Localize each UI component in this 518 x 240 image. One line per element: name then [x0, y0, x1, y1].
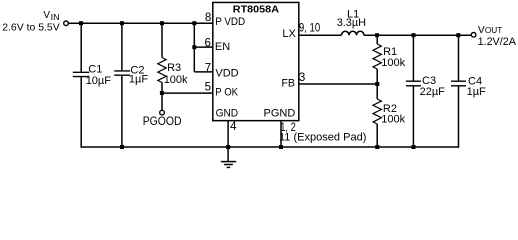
capacitor C4 [451, 76, 486, 98]
wire bottom rail [81, 146, 460, 148]
wire R3 upper [161, 23, 163, 57]
wire C2 upper [121, 23, 123, 70]
svg-text:C1: C1 [88, 63, 102, 75]
svg-text:1µF: 1µF [467, 86, 486, 98]
svg-text:22µF: 22µF [420, 86, 446, 98]
node C2 top [120, 21, 124, 25]
svg-text:2.6V to 5.5V: 2.6V to 5.5V [2, 21, 60, 33]
svg-text:5: 5 [205, 82, 211, 94]
svg-text:P OK: P OK [215, 87, 238, 99]
wire C4 upper [458, 35, 460, 80]
IC U1 RT8058A body [213, 2, 299, 120]
node EN junction [192, 45, 196, 49]
svg-text:RT8058A: RT8058A [233, 4, 280, 16]
node C1 top [79, 21, 83, 25]
svg-text:6: 6 [204, 38, 210, 50]
node R3 POK junction [160, 91, 164, 95]
node C3 top [412, 33, 416, 37]
terminal VIN [64, 21, 69, 26]
svg-text:P VDD: P VDD [215, 16, 245, 28]
wire C4 lower [458, 86, 460, 148]
svg-text:FB: FB [281, 78, 295, 90]
wire EN/VDD vertical branch [193, 23, 195, 72]
svg-text:4: 4 [230, 121, 237, 133]
svg-text:EN: EN [215, 41, 230, 53]
node R3 top [160, 21, 164, 25]
node R2 bottom [375, 145, 379, 149]
svg-text:VDD: VDD [215, 67, 238, 79]
svg-text:3: 3 [299, 72, 305, 84]
wire VDD [194, 71, 213, 73]
node EN branch top [192, 21, 196, 25]
capacitor C1 [73, 63, 111, 87]
svg-text:3.3µH: 3.3µH [337, 17, 366, 29]
wire POK [162, 92, 213, 94]
wire C2 lower [121, 75, 123, 147]
svg-text:100k: 100k [381, 113, 405, 125]
node C3 bottom [412, 145, 416, 149]
svg-text:OUT: OUT [485, 26, 503, 35]
wire C1 upper [80, 23, 82, 71]
terminal PGOOD [160, 110, 165, 115]
wire EN [194, 46, 213, 48]
wire top rail VIN to PVDD pin 8 [68, 22, 213, 24]
node C4 top [456, 33, 460, 37]
node C2 bottom [120, 145, 124, 149]
node R1 top [375, 33, 379, 37]
svg-text:PGOOD: PGOOD [143, 114, 182, 128]
svg-text:1.2V/2A: 1.2V/2A [478, 36, 517, 48]
capacitor C3 [406, 75, 445, 98]
resistor R1 [373, 44, 406, 84]
svg-text:GND: GND [216, 107, 239, 119]
wire FB [299, 83, 377, 85]
wire C3 lower [412, 86, 414, 148]
svg-text:V: V [478, 25, 485, 36]
wire R1 upper [376, 35, 378, 44]
svg-text:R3: R3 [167, 62, 181, 74]
svg-text:7: 7 [205, 63, 211, 75]
wire PGOOD drop [161, 93, 163, 110]
svg-text:1µF: 1µF [129, 74, 148, 86]
svg-text:100k: 100k [164, 74, 188, 86]
wire LX out [299, 34, 342, 36]
inductor L1 [337, 9, 366, 36]
svg-text:9, 10: 9, 10 [299, 23, 320, 35]
node GND bottom [226, 145, 230, 149]
svg-text:LX: LX [282, 28, 296, 40]
ground [221, 162, 236, 168]
resistor R2 [373, 84, 406, 148]
node PGND bottom [279, 145, 283, 149]
node FB junction [375, 82, 379, 86]
wire GND pin 4 [227, 121, 229, 162]
svg-text:V: V [43, 10, 50, 21]
capacitor C2 [114, 64, 148, 85]
terminal VOUT [471, 33, 476, 38]
wire PGND pins 1,2 [280, 121, 282, 147]
svg-text:8: 8 [205, 12, 211, 24]
resistor R3 [158, 58, 188, 94]
svg-text:PGND: PGND [264, 107, 296, 119]
wire L1 to VOUT [364, 34, 471, 36]
wire C1 lower [80, 77, 82, 148]
svg-text:11 (Exposed Pad): 11 (Exposed Pad) [279, 131, 366, 143]
svg-text:100k: 100k [381, 57, 405, 69]
svg-text:10µF: 10µF [86, 75, 112, 87]
wire C3 upper [412, 35, 414, 80]
